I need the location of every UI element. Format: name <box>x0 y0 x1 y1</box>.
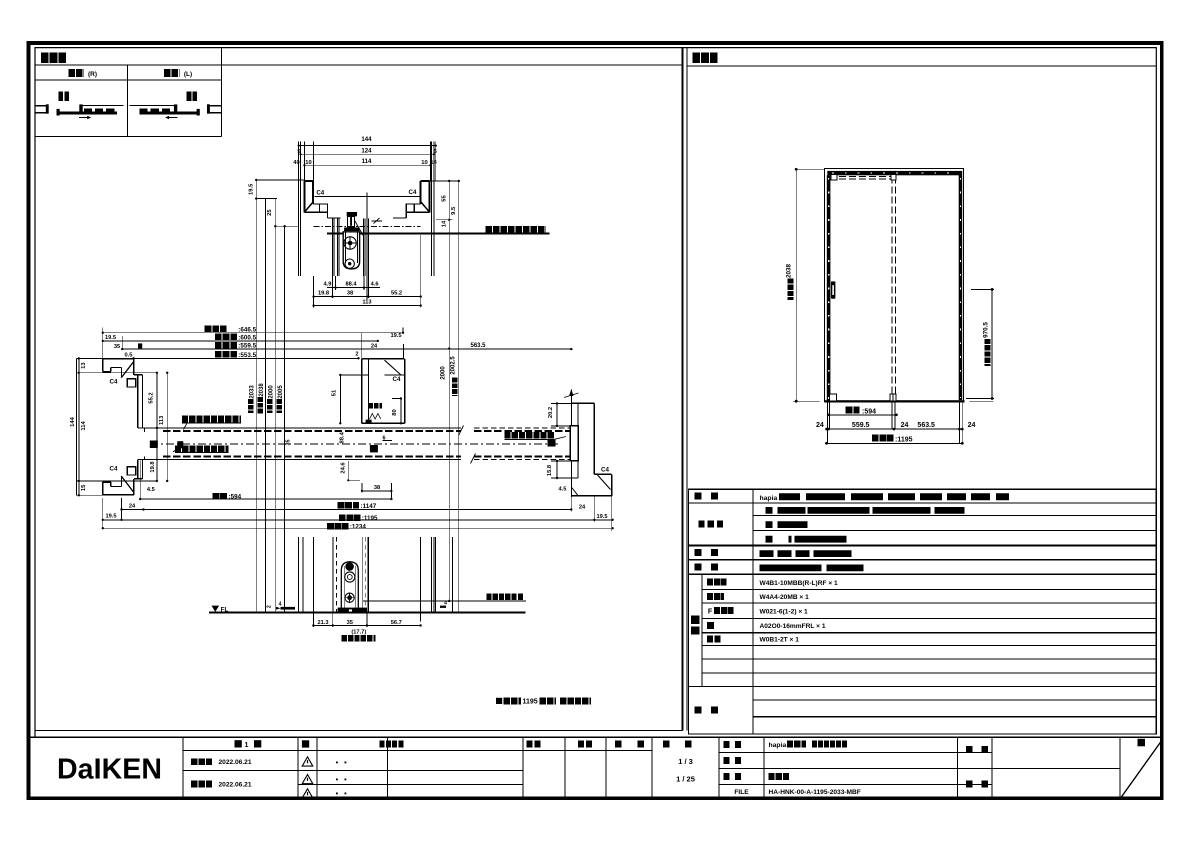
bottom guide squares <box>830 394 837 401</box>
content row6 flat rail <box>760 565 865 572</box>
center post dim 80 <box>400 399 402 424</box>
svg-text:2005: 2005 <box>278 385 284 399</box>
revision dots <box>336 762 338 764</box>
svg-text:38: 38 <box>374 485 380 491</box>
ceiling line <box>256 179 304 181</box>
svg-text:24.6: 24.6 <box>340 462 346 474</box>
right cell arrow <box>167 117 177 119</box>
svg-text:0.5: 0.5 <box>125 352 133 358</box>
svg-text:HA-HNK-00-A-1195-2033-MBF: HA-HNK-00-A-1195-2033-MBF <box>769 789 861 796</box>
panel end cap <box>570 426 578 461</box>
svg-text:W4A4-20MB × 1: W4A4-20MB × 1 <box>760 594 810 601</box>
vertical dim line 2000 right <box>448 181 450 601</box>
left height dim 2038 <box>795 169 797 401</box>
svg-text:21.3: 21.3 <box>317 620 328 626</box>
extension lines top <box>298 142 300 180</box>
svg-text:20.2: 20.2 <box>548 407 554 418</box>
svg-text::559.5: :559.5 <box>238 343 256 350</box>
svg-text:2: 2 <box>355 352 358 358</box>
svg-text:C4: C4 <box>110 378 118 385</box>
bottom guide dashed lines <box>332 537 334 612</box>
label shiage <box>699 520 724 527</box>
svg-text:88.4: 88.4 <box>345 282 357 288</box>
svg-text:C4: C4 <box>393 376 401 383</box>
seitei date <box>191 758 212 765</box>
dim 6 tick <box>383 440 393 442</box>
svg-text:19.5: 19.5 <box>248 183 254 195</box>
svg-text:144: 144 <box>361 136 372 143</box>
front dim wakugaihaba 1195 <box>827 442 963 444</box>
svg-text::1147: :1147 <box>361 503 377 510</box>
svg-text:19.5: 19.5 <box>105 514 116 520</box>
spec col dividers <box>752 489 754 734</box>
svg-text:W4B1-10MBB(R-L)RF × 1: W4B1-10MBB(R-L)RF × 1 <box>760 580 839 587</box>
guide circles <box>345 562 354 571</box>
front view frame outer <box>825 169 964 402</box>
svg-text::553.5: :553.5 <box>238 352 256 359</box>
svg-text::1195: :1195 <box>895 436 913 443</box>
right jamb foot <box>594 473 611 475</box>
svg-text:4.9: 4.9 <box>324 282 332 288</box>
svg-text:15: 15 <box>81 484 87 491</box>
right jamb dims 20.2 15.8 4.5 <box>551 402 571 404</box>
label totte <box>695 549 719 556</box>
svg-text:35: 35 <box>114 344 120 350</box>
svg-text:559.5: 559.5 <box>852 422 870 429</box>
svg-text:24: 24 <box>129 504 136 510</box>
FL mark <box>212 606 220 612</box>
up arrow right jamb <box>570 390 572 498</box>
right cell wall stub <box>210 105 222 107</box>
cap blob in jamb pocket <box>150 441 158 449</box>
left cell fixed panel <box>80 105 124 107</box>
right jamb chamfer C4 <box>598 475 611 490</box>
content row4 waku olefin <box>766 536 848 543</box>
floor marks right <box>440 606 446 608</box>
svg-text:C4: C4 <box>601 467 609 474</box>
kenmei label <box>966 746 988 753</box>
center post dim 51 <box>339 375 341 423</box>
right jamb profile <box>571 402 594 404</box>
label bikou <box>695 706 719 713</box>
sublabel tobira <box>707 622 714 629</box>
svg-text:9.5: 9.5 <box>451 206 457 215</box>
hidden door top dashes <box>829 176 895 178</box>
svg-text:1: 1 <box>245 742 249 749</box>
sublabel hikite <box>707 636 722 643</box>
header hidaribiki(L) <box>164 69 180 77</box>
svg-text:563.5: 563.5 <box>470 343 486 349</box>
svg-text:2000: 2000 <box>269 385 275 399</box>
jamb dims 13 114 15 144 <box>78 359 80 496</box>
inner border frame <box>35 48 1156 738</box>
front left frame thick bar <box>827 175 831 400</box>
front title shomenzu <box>692 52 718 63</box>
svg-text:51: 51 <box>331 389 337 396</box>
svg-text::646.5: :646.5 <box>238 326 256 333</box>
leader hikido F cap <box>505 432 555 439</box>
title underline right <box>687 65 1156 67</box>
svg-text::594: :594 <box>229 494 242 501</box>
section title danmenzu <box>41 52 67 63</box>
svg-text:55: 55 <box>442 195 448 202</box>
svg-text:2: 2 <box>267 605 273 608</box>
header migibiki(R) <box>69 69 85 77</box>
vertical dim line wakunaidaka 2000 <box>274 199 276 613</box>
svg-text:24: 24 <box>371 344 378 350</box>
rail center note <box>342 635 376 641</box>
svg-text:C4: C4 <box>110 466 118 473</box>
svg-text:(L): (L) <box>184 71 192 78</box>
head frame left lip <box>304 180 313 182</box>
content row3 tosaki <box>766 521 809 528</box>
label zumei <box>724 773 742 780</box>
centerline <box>366 192 368 299</box>
dim 38 under panel <box>361 483 363 492</box>
svg-text:W0B1-2T × 1: W0B1-2T × 1 <box>760 637 800 644</box>
svg-text:24: 24 <box>901 422 909 429</box>
svg-text:hapia: hapia <box>769 742 787 749</box>
wall line left pair <box>298 142 300 277</box>
page header <box>1138 739 1146 747</box>
spec table outer <box>689 489 1157 734</box>
leader tsurisha kari kotei <box>182 416 241 423</box>
front top band <box>827 171 961 175</box>
svg-text:2022.06.21: 2022.06.21 <box>219 782 252 789</box>
hidden door right dashes <box>891 177 893 400</box>
svg-text::1195: :1195 <box>362 515 378 522</box>
area divider <box>682 48 684 731</box>
sublabel kotei-A <box>707 593 724 600</box>
right cell hanging mark <box>187 91 198 101</box>
left jamb web <box>134 374 143 376</box>
svg-text:2022.06.21: 2022.06.21 <box>219 759 252 766</box>
zumei value <box>769 773 791 780</box>
shukushaku header <box>663 740 692 747</box>
title block row lines <box>183 750 652 752</box>
right height dim 970.5 <box>991 289 993 398</box>
door panel plan lines <box>144 427 461 429</box>
svg-text::594: :594 <box>862 409 876 416</box>
jamb dims 55.2 113 19.8 4.5 <box>156 373 158 481</box>
kakunin header <box>578 740 592 747</box>
center post ext lines <box>361 333 363 359</box>
edition header dai 1 han <box>235 740 242 747</box>
left sub dim 19.5 <box>256 198 277 200</box>
front dim tohaba 594 <box>829 414 897 416</box>
svg-text:1195: 1195 <box>523 699 538 706</box>
chamfer C4 left <box>305 202 314 212</box>
svg-text:hapia: hapia <box>760 495 778 502</box>
svg-text:F: F <box>708 609 713 616</box>
head board top line <box>315 196 421 198</box>
revision triangles <box>302 757 313 766</box>
right cell sliding panel <box>139 111 199 114</box>
label meisho <box>724 741 742 748</box>
center post outline <box>362 358 405 360</box>
dim line wakugaihaba 1195 <box>103 519 613 521</box>
label hinban <box>724 757 742 764</box>
spec row lines <box>689 502 1157 504</box>
svg-text:13: 13 <box>81 362 87 369</box>
svg-text:24: 24 <box>579 505 586 511</box>
front dim row 559.5 24 563.5 <box>827 428 963 430</box>
chamfer C4 right <box>421 202 430 212</box>
svg-text:6: 6 <box>382 435 385 441</box>
note: zu wa 1195 haba migibiki <box>496 698 502 704</box>
bottom guide housing <box>341 562 358 612</box>
tanto label <box>966 781 988 788</box>
FL floor line <box>209 611 526 613</box>
vertical dim line wakunaidaka 2002.5 <box>458 181 460 612</box>
page diagonal <box>1121 742 1161 798</box>
left cell wall stub <box>35 105 46 107</box>
svg-text:19.5: 19.5 <box>105 335 116 341</box>
svg-text:10: 10 <box>305 160 311 166</box>
svg-text:4.5: 4.5 <box>147 487 155 493</box>
left jamb lower hook <box>103 494 134 496</box>
vertical dim line zenkou 2033 <box>255 180 257 613</box>
han header <box>302 740 309 747</box>
svg-text:FL: FL <box>221 607 229 614</box>
svg-text:2038: 2038 <box>786 264 793 279</box>
svg-text:35: 35 <box>286 440 292 446</box>
front ext lines below <box>827 403 829 444</box>
hanger bracket blob on panel <box>177 441 183 448</box>
kaitei rireki header <box>380 740 404 747</box>
svg-text:25: 25 <box>267 209 273 216</box>
svg-text:80: 80 <box>392 409 398 415</box>
left cell hanging mark <box>59 91 70 101</box>
dim line zentaihaba 1234 <box>103 527 613 529</box>
front floor band <box>824 400 964 402</box>
svg-text:970.5: 970.5 <box>983 322 990 338</box>
vertical dim line wakugaidaka 2038 <box>265 199 267 613</box>
svg-text:4.5: 4.5 <box>559 487 567 493</box>
rail leader text senyo rail betto buhin <box>486 226 547 233</box>
left jamb pocket <box>138 427 145 429</box>
left jamb web lower <box>137 459 139 479</box>
center post seal <box>369 403 383 409</box>
title underline left <box>35 64 683 66</box>
svg-text:56.7: 56.7 <box>391 620 402 626</box>
head board bottom dashed <box>314 226 421 228</box>
svg-text:2038: 2038 <box>259 383 265 397</box>
head frame right lip <box>421 180 430 182</box>
right dims 55 14 9.5 <box>448 180 450 182</box>
width dim line 646.5 <box>103 332 403 334</box>
svg-text:4: 4 <box>279 601 282 607</box>
svg-text:(17.7): (17.7) <box>351 629 366 635</box>
svg-text:114: 114 <box>362 158 372 165</box>
svg-text:2000: 2000 <box>440 366 446 380</box>
title block column lines <box>182 737 184 798</box>
svg-text:A02O0-16mmFRL × 1: A02O0-16mmFRL × 1 <box>760 623 826 630</box>
svg-text:35: 35 <box>347 620 353 626</box>
dim line tohaba 594 <box>140 498 391 500</box>
svg-text:19.8: 19.8 <box>318 291 329 297</box>
roller bolt <box>345 259 354 268</box>
hanger corner squares <box>831 174 837 180</box>
content row5 hikite kanagu <box>760 550 853 557</box>
svg-text:19.5: 19.5 <box>390 333 401 339</box>
below floor dims 21.3 35 56.7 <box>312 612 314 627</box>
floor guide blob on panel <box>370 445 378 452</box>
svg-text:113: 113 <box>362 300 371 306</box>
svg-text:2033: 2033 <box>250 385 256 399</box>
svg-text:C4: C4 <box>316 189 324 196</box>
svg-text::1234: :1234 <box>350 524 367 531</box>
label hinban vertical <box>691 616 700 635</box>
svg-text:4.6: 4.6 <box>371 282 379 288</box>
svg-text:14: 14 <box>442 220 448 227</box>
svg-text:563.5: 563.5 <box>917 422 935 429</box>
panel break marks <box>459 426 464 436</box>
svg-text:4: 4 <box>444 601 447 607</box>
roller housing <box>343 232 359 269</box>
frame lines lower resume <box>312 537 314 612</box>
hanger roller unit <box>331 219 333 276</box>
svg-text:55.2: 55.2 <box>148 392 154 403</box>
left sub dim 25 <box>275 225 298 227</box>
svg-text:124: 124 <box>361 147 372 154</box>
width dim line 559.5 <box>122 348 571 350</box>
left cell sliding panel <box>57 111 117 114</box>
svg-text:15.8: 15.8 <box>547 464 553 476</box>
label tsurisha <box>695 564 719 571</box>
vertical dim line yukoudaka 2005 <box>284 226 286 612</box>
svg-text:W021-6(1-2) × 1: W021-6(1-2) × 1 <box>760 608 809 615</box>
svg-text:(R): (R) <box>88 71 97 78</box>
svg-text:1 / 25: 1 / 25 <box>676 775 695 784</box>
svg-text:88.4: 88.4 <box>340 431 346 443</box>
label yoshiki <box>695 493 719 500</box>
title block top line <box>29 736 1161 738</box>
sakusei header <box>615 740 645 747</box>
left cell arrow <box>79 117 89 119</box>
bottom dims of head detail <box>335 276 337 290</box>
svg-text:55.2: 55.2 <box>391 291 402 297</box>
svg-text:2002.5: 2002.5 <box>451 356 457 375</box>
svg-text:114: 114 <box>81 421 87 431</box>
svg-text:113: 113 <box>159 415 165 425</box>
stem diagonal <box>354 220 364 237</box>
wall line right pair <box>430 142 432 277</box>
dim line wakunaihaba 1147 <box>122 509 572 511</box>
svg-text:38: 38 <box>347 291 353 297</box>
content row2 panel sheet <box>766 507 969 514</box>
dim 24.6 <box>347 461 349 480</box>
door handle <box>831 281 836 298</box>
direction table grid <box>35 79 222 81</box>
width dim line 553.5 <box>134 357 359 359</box>
hanging rail thick line + leader <box>327 232 550 234</box>
shonin header <box>527 740 541 747</box>
svg-text:1 / 3: 1 / 3 <box>678 757 693 766</box>
svg-text:DaIKEN: DaIKEN <box>57 754 161 786</box>
svg-text:144: 144 <box>70 416 76 426</box>
svg-text:10: 10 <box>421 160 427 166</box>
svg-text:FILE: FILE <box>734 789 749 796</box>
width dim line 600.5 <box>103 340 378 342</box>
step line + flat rail leader <box>363 600 526 602</box>
svg-text:C4: C4 <box>409 189 417 196</box>
leader 50 cap <box>175 445 229 452</box>
right cell fixed panel <box>130 105 175 107</box>
front right band <box>959 171 963 400</box>
svg-text:19.8: 19.8 <box>150 461 156 473</box>
svg-text:24: 24 <box>968 422 976 429</box>
svg-text:24: 24 <box>816 422 824 429</box>
svg-text::600.5: :600.5 <box>238 335 256 342</box>
center post chamfer C4 <box>385 360 401 375</box>
left jamb profile upper hook <box>103 358 134 360</box>
roller wheel <box>344 237 356 249</box>
kaitei date <box>191 781 212 788</box>
sublabel kotei-waku <box>707 578 727 585</box>
